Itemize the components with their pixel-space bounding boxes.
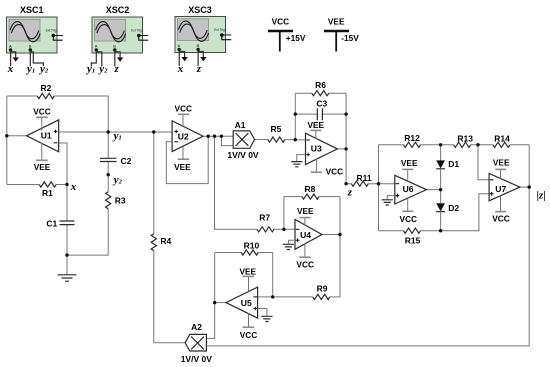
svg-text:VCC: VCC <box>492 214 510 224</box>
on-page connector arrow (XSC1 A) <box>11 52 19 62</box>
svg-text:U4: U4 <box>300 230 311 240</box>
svg-text:VEE: VEE <box>328 17 345 27</box>
svg-text:U6: U6 <box>403 184 414 194</box>
svg-text:D2: D2 <box>448 203 459 213</box>
svg-text:R5: R5 <box>270 124 281 134</box>
svg-text:XSC1: XSC1 <box>20 5 44 15</box>
resistor R10 <box>241 240 259 255</box>
on-page connector arrow (XSC3 A) <box>179 52 188 62</box>
wire R10 left vertical to U5 output <box>214 253 216 303</box>
wire y1 line to R4 branch <box>153 132 155 234</box>
wire XSC3 A to x <box>178 50 180 67</box>
diode D2 <box>436 190 459 231</box>
power pin VCC (U1) <box>33 106 51 130</box>
node D2/R15 junction <box>439 229 442 232</box>
power pin VCC (U3) <box>311 159 343 177</box>
svg-text:VEE: VEE <box>34 162 51 172</box>
node U5 output junction <box>213 301 216 304</box>
oscilloscope XSC2 <box>92 5 148 53</box>
wire R10 right vertical <box>272 253 274 297</box>
wire U7 output to A2 lower input (bottom run) <box>206 187 529 346</box>
power pin VCC (U7) <box>492 196 510 224</box>
op-amp U1 <box>27 120 59 152</box>
op-amp U4 <box>295 219 322 249</box>
wire R9 to U5 - input <box>258 296 313 298</box>
svg-text:VCC: VCC <box>240 330 258 340</box>
oscilloscope XSC3 <box>175 5 231 53</box>
op-amp U5 <box>226 287 258 318</box>
wire R8 right vertical to U4 output <box>339 197 341 235</box>
wire U2 feedback loop <box>166 136 208 183</box>
svg-text:Ext Trig: Ext Trig <box>214 28 225 32</box>
svg-text:C1: C1 <box>46 219 57 229</box>
node R4 branch junction <box>152 130 155 133</box>
svg-text:VEE: VEE <box>297 206 314 216</box>
node C3 left junction <box>294 112 297 115</box>
power pin VCC (U4) <box>296 244 314 270</box>
capacitor C2 <box>100 156 132 166</box>
svg-text:R6: R6 <box>315 80 326 90</box>
wire U4 output to R9 <box>330 235 340 297</box>
wire y1 line (U1 + input to U2 + input) <box>59 131 172 133</box>
svg-text:1V/V 0V: 1V/V 0V <box>227 150 259 160</box>
wire U1 - input to x node <box>59 143 67 185</box>
wire U2 output to A1 lower input <box>221 136 233 145</box>
multiplier A1 <box>227 120 259 160</box>
wire R2 top run <box>7 96 108 132</box>
node R12/R13/D1 junction <box>439 143 442 146</box>
resistor R2 <box>37 83 54 99</box>
wire R4 bottom to A2 output <box>154 251 186 343</box>
resistor R11 <box>351 173 372 186</box>
wire R13/R14 node to U7 - input <box>478 145 489 180</box>
wire R14 to U7 output vertical <box>528 145 530 187</box>
svg-text:R13: R13 <box>457 134 473 144</box>
resistor R9 <box>313 283 330 299</box>
svg-text:VEE: VEE <box>307 120 324 130</box>
svg-text:R9: R9 <box>317 283 328 293</box>
svg-text:R8: R8 <box>304 184 315 194</box>
svg-text:VEE: VEE <box>493 157 510 167</box>
node U4 output junction <box>338 233 341 236</box>
svg-text:Ext Trig: Ext Trig <box>131 28 142 32</box>
svg-text:R12: R12 <box>404 133 420 143</box>
multiplier A2 <box>181 322 213 364</box>
node y2 junction <box>107 173 110 176</box>
wire R11 run (z node) <box>346 183 395 185</box>
svg-text:z: z <box>347 187 353 199</box>
svg-text:x: x <box>70 181 77 193</box>
ground (U3 + input) <box>291 155 305 167</box>
node R7/R8 junction <box>282 228 285 231</box>
resistor R13 <box>454 134 474 148</box>
wire U4 output <box>322 234 340 236</box>
wire C1 to ground node <box>66 225 68 256</box>
power pin VEE (U4) <box>297 206 314 225</box>
svg-text:-15V: -15V <box>341 33 359 43</box>
resistor R12 <box>404 133 421 148</box>
svg-text:R15: R15 <box>405 236 421 246</box>
svg-text:VCC: VCC <box>400 214 418 224</box>
wire U2 output line <box>203 135 233 137</box>
ground (U6 + input) <box>382 196 395 205</box>
power pin VEE (U1) <box>34 143 51 172</box>
power pin VEE (U3) <box>307 120 324 139</box>
wire R10 run <box>215 252 273 254</box>
svg-text:Ext Trig: Ext Trig <box>46 28 57 32</box>
svg-text:U7: U7 <box>495 184 506 194</box>
node z junction <box>344 182 347 185</box>
wire R3 top to y2 node to C2 bottom <box>107 162 109 192</box>
svg-text:R3: R3 <box>115 196 126 206</box>
op-amp U2 <box>172 121 203 152</box>
resistor R14 <box>493 134 510 148</box>
wire U5 output <box>215 302 226 304</box>
wire R8 left vertical <box>283 197 285 230</box>
svg-text:U1: U1 <box>41 130 52 140</box>
svg-text:VCC: VCC <box>296 260 314 270</box>
node ground junction <box>65 253 68 256</box>
node U3 - input junction <box>294 138 297 141</box>
power pin VEE (U7) <box>493 157 510 178</box>
node U3 output junction <box>344 147 347 150</box>
wire XSC1 B to y2 <box>30 52 43 67</box>
wire R14 run <box>478 144 529 146</box>
node U6 output junction <box>439 188 442 191</box>
wire C3 run <box>295 113 346 115</box>
resistor R1 <box>39 182 56 198</box>
svg-text:x: x <box>7 63 14 75</box>
wire XSC2 B to z <box>114 50 116 67</box>
wire R12 run <box>379 144 441 146</box>
wire R13 run <box>441 144 478 146</box>
resistor R3 <box>106 192 126 209</box>
resistor R6 <box>312 80 329 96</box>
svg-text:x: x <box>177 63 184 75</box>
op-amp U3 <box>306 133 338 164</box>
wire R5 to U3 - input <box>285 139 306 141</box>
svg-text:XSC3: XSC3 <box>188 5 212 15</box>
svg-text:1V/V 0V: 1V/V 0V <box>181 354 213 364</box>
node U2 output junctions <box>207 135 210 138</box>
power pin VEE (U2) <box>174 147 191 173</box>
wire U7 output <box>520 186 529 188</box>
svg-text:U2: U2 <box>178 131 189 141</box>
wire U1 output <box>7 135 27 137</box>
op-amp U7 <box>489 173 520 200</box>
wire U3 feedback right vertical <box>345 93 347 149</box>
wire U3 output <box>337 149 346 184</box>
ground (U4 + input) <box>283 240 295 249</box>
node U6 - input junction <box>377 182 380 185</box>
wire XSC3 B to z <box>197 50 199 67</box>
wire XSC2 A to y1 <box>91 50 96 67</box>
node U7 output junction <box>528 185 531 188</box>
svg-text:A: A <box>178 43 181 48</box>
capacitor C3 <box>316 99 327 121</box>
node U1 output junction <box>5 134 8 137</box>
svg-text:B: B <box>29 44 32 49</box>
wire XSC1 A to x <box>10 50 12 66</box>
svg-text:A1: A1 <box>235 120 246 130</box>
svg-text:XSC2: XSC2 <box>106 5 130 15</box>
wire R7 to U4 - input <box>274 228 295 230</box>
svg-text:R10: R10 <box>244 240 260 250</box>
svg-text:R4: R4 <box>160 236 171 246</box>
svg-text:B: B <box>113 44 116 49</box>
svg-text:VCC: VCC <box>326 167 344 177</box>
wire left feedback vertical (R2/R1 loop) <box>6 96 8 185</box>
ground (U5 + input) <box>258 309 273 322</box>
wire ground node to R3 bottom <box>67 209 108 255</box>
svg-text:R11: R11 <box>357 173 372 183</box>
power pin VCC (U6) <box>400 199 418 224</box>
svg-text:z: z <box>114 63 120 75</box>
resistor R15 <box>404 228 421 246</box>
svg-text:z: z <box>196 63 202 75</box>
wire C2 top to y1 line <box>107 132 109 158</box>
svg-text:VCC: VCC <box>33 106 51 116</box>
wire R8 run <box>284 196 340 198</box>
on-page connector arrow (XSC3 B) <box>198 52 206 62</box>
svg-text:B: B <box>197 43 200 48</box>
svg-text:A: A <box>95 44 98 49</box>
diode D1 <box>436 145 459 190</box>
power pin VCC (U2) <box>175 104 193 127</box>
wire U6 left vertical (R12/R15) <box>378 145 380 231</box>
node y1 junction (C2 top) <box>107 130 110 133</box>
svg-text:D1: D1 <box>448 159 459 169</box>
node C3 right junction <box>344 112 347 115</box>
power rail VEE -15V <box>324 17 359 52</box>
svg-text:VCC: VCC <box>175 104 193 114</box>
wire A1 output to R5 <box>254 139 267 141</box>
svg-text:C2: C2 <box>121 156 132 166</box>
wire R15 run <box>379 230 441 232</box>
wire U5 output to A2 upper input <box>206 303 214 339</box>
wire U2 output to R7 <box>215 136 258 229</box>
capacitor C1 <box>46 219 74 229</box>
wire R15 to U7 + input <box>441 194 490 231</box>
wire R6 run <box>295 92 346 94</box>
svg-text:VCC: VCC <box>272 17 290 27</box>
wire XSC2 A to y2 <box>96 52 102 67</box>
svg-text:A2: A2 <box>191 322 202 332</box>
oscilloscope XSC1 <box>7 5 63 53</box>
svg-text:R14: R14 <box>494 134 510 144</box>
svg-text:A: A <box>9 44 12 49</box>
svg-text:VEE: VEE <box>174 162 191 172</box>
op-amp U6 <box>395 175 427 204</box>
power pin VEE (U5) <box>239 266 256 291</box>
power pin VEE (U6) <box>401 158 418 181</box>
node U5 - input junction <box>271 295 274 298</box>
node x junction <box>65 183 68 186</box>
svg-text:U3: U3 <box>311 144 322 154</box>
resistor R8 <box>302 184 319 199</box>
resistor R7 <box>257 212 274 232</box>
wire U6 output <box>427 189 441 191</box>
svg-text:C3: C3 <box>316 99 327 109</box>
svg-text:VEE: VEE <box>401 158 418 168</box>
wire U3 feedback left vertical <box>294 93 296 140</box>
power rail VCC +15V <box>268 17 306 52</box>
svg-text:R1: R1 <box>42 188 53 198</box>
svg-text:R2: R2 <box>40 83 51 93</box>
svg-text:U5: U5 <box>241 298 252 308</box>
ground (main, below C1) <box>58 255 77 281</box>
wire XSC1 B to y1 <box>29 50 31 66</box>
svg-text:+15V: +15V <box>286 33 306 43</box>
power pin VCC (U5) <box>240 314 258 341</box>
wire x node to C1 <box>66 185 68 222</box>
svg-text:|z|: |z| <box>537 189 546 201</box>
svg-text:VEE: VEE <box>239 266 256 276</box>
resistor R5 <box>268 124 285 142</box>
svg-text:R7: R7 <box>259 212 270 222</box>
on-page connector arrow (XSC2 B) <box>115 52 124 62</box>
wire R1 run <box>7 184 67 186</box>
resistor R4 <box>151 234 171 251</box>
node R13/R14/U7 junction <box>476 143 479 146</box>
